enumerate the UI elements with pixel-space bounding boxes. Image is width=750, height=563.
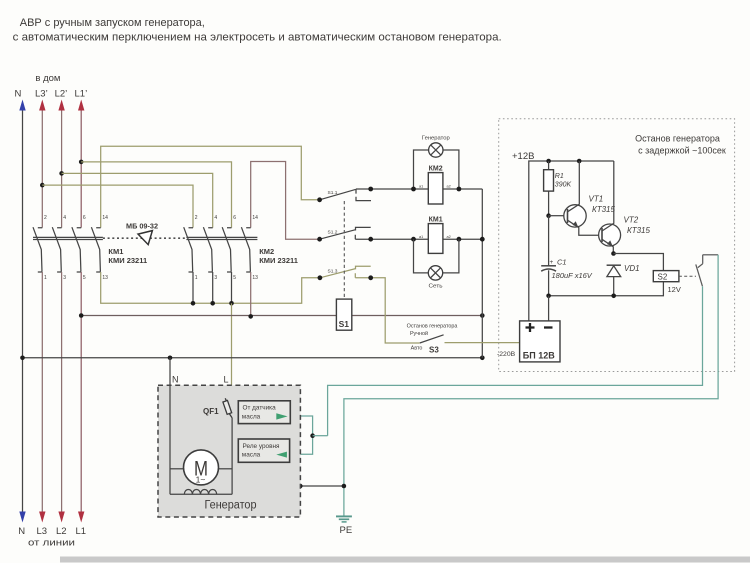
svg-text:а2: а2 <box>447 185 451 189</box>
node S1.2 out <box>368 237 373 242</box>
wire generator N drop <box>169 358 171 495</box>
contactor KM1 pole 3 <box>72 227 81 272</box>
svg-text:КТ315: КТ315 <box>592 205 616 214</box>
node N bus right end <box>480 356 485 361</box>
mechanical interlock dotted link <box>103 237 186 239</box>
svg-text:PE: PE <box>340 525 353 536</box>
switch S1.1 <box>320 189 371 200</box>
coil KM2 box <box>428 173 443 204</box>
contactor KM2 pole 1 <box>184 227 193 272</box>
svg-text:N: N <box>18 526 25 537</box>
svg-text:S1.2: S1.2 <box>328 230 338 236</box>
svg-text:S1: S1 <box>339 319 350 329</box>
svg-text:13: 13 <box>102 275 108 281</box>
node KM2-3 on L bus <box>210 301 215 306</box>
dashed link S2 <box>679 275 696 277</box>
svg-text:КМ1: КМ1 <box>429 216 443 223</box>
wire motor left stub <box>170 468 184 470</box>
wire sensor junction to riser <box>313 435 328 437</box>
svg-text:КМИ 23211: КМИ 23211 <box>108 256 147 265</box>
contactor KM2 pole 3 <box>222 227 231 272</box>
svg-text:N: N <box>172 375 179 385</box>
svg-text:L2: L2 <box>56 526 67 537</box>
svg-text:Генератор: Генератор <box>422 136 450 142</box>
svg-text:13: 13 <box>252 275 258 281</box>
contactor KM2 pole 4 aux <box>241 227 250 272</box>
svg-text:а1: а1 <box>419 235 423 239</box>
svg-text:L3: L3 <box>37 526 48 537</box>
lamp Set (mains) <box>428 266 442 280</box>
arrow L1 down <box>78 512 84 523</box>
svg-text:QF1: QF1 <box>203 407 219 416</box>
svg-text:180uF х16V: 180uF х16V <box>552 271 593 280</box>
lamp Generator <box>429 143 443 157</box>
wire L1' control bus y=315.5 <box>81 315 482 317</box>
arrow L2 down <box>58 512 64 523</box>
svg-text:4: 4 <box>63 215 66 221</box>
lamp Generator loop <box>414 150 459 189</box>
svg-text:14: 14 <box>102 215 108 221</box>
label plus BP <box>526 323 535 332</box>
arrow L3' up <box>39 100 45 111</box>
wire motor right stub <box>219 468 233 470</box>
arrow N down <box>19 512 25 523</box>
svg-text:L1: L1 <box>76 526 87 537</box>
svg-text:C1: C1 <box>557 258 567 267</box>
svg-text:+12В: +12В <box>512 151 534 162</box>
mechanical link S1 dashed <box>343 201 345 299</box>
node rail VT1 collector <box>577 159 582 164</box>
node S1.3 pivot <box>318 275 323 280</box>
node L3' feed <box>40 183 45 188</box>
contact S2 corner to teal riser <box>703 254 718 256</box>
svg-text:с автоматическим перключением: с автоматическим перключением на электро… <box>13 32 502 44</box>
arrow L3 down <box>39 512 45 523</box>
wire KM1 aux top 14 <box>101 146 318 227</box>
svg-text:а2: а2 <box>447 235 451 239</box>
lamp Set loop <box>414 239 459 273</box>
ground PE symbol <box>336 516 352 522</box>
node KM1 coil right <box>457 237 462 242</box>
svg-text:КМИ 23211: КМИ 23211 <box>259 256 298 265</box>
svg-text:5: 5 <box>83 275 86 281</box>
svg-text:БП 12В: БП 12В <box>523 351 555 361</box>
wire VT1 base <box>549 215 565 217</box>
wire KM1-13 to generator L bus <box>101 272 319 303</box>
svg-text:2: 2 <box>195 215 198 221</box>
svg-text:с задержкой ~100сек: с задержкой ~100сек <box>638 146 726 156</box>
wire emitter node to S2 coil <box>614 254 664 271</box>
svg-text:Сеть: Сеть <box>429 284 443 290</box>
wire KM1 coil row <box>355 238 482 240</box>
node S1.3 out <box>368 275 373 280</box>
svg-text:Останов генератора: Останов генератора <box>407 324 458 330</box>
svg-text:Реле уровня: Реле уровня <box>243 443 281 450</box>
node ground C1 <box>546 294 551 299</box>
node L1' control tap <box>79 313 84 318</box>
node KM2-13 on control bus <box>248 314 253 319</box>
wire L1' vertical top <box>80 111 82 228</box>
wire sensor 1 <box>288 416 312 454</box>
svg-text:S1.1: S1.1 <box>328 190 338 196</box>
coil KM1 box <box>428 224 443 254</box>
wire teal S2 bottom to sensors <box>328 286 703 436</box>
svg-text:L2’: L2’ <box>55 89 68 100</box>
svg-text:-220В: -220В <box>497 351 516 358</box>
bottom gray band <box>60 557 750 563</box>
node N bus left <box>20 356 25 361</box>
svg-text:КТ315: КТ315 <box>627 226 651 235</box>
node ground VD1 <box>611 294 616 299</box>
svg-text:S3: S3 <box>429 346 439 355</box>
node right vertical KM1 row <box>480 237 485 242</box>
node KM2 coil right <box>457 187 462 192</box>
svg-text:2: 2 <box>44 215 47 221</box>
wire KM2-5 bottom stub <box>231 272 233 303</box>
node KM1 coil left <box>411 237 416 242</box>
generator box <box>158 385 300 517</box>
node KM2-1 on L bus <box>191 301 196 306</box>
svg-text:S2: S2 <box>658 273 668 282</box>
arrow sensor 1 <box>276 413 287 419</box>
svg-text:N: N <box>15 89 22 100</box>
node rail R1 <box>546 159 551 164</box>
arrow sensor 2 <box>276 452 287 458</box>
wire teal S2 top to PE line <box>344 255 718 516</box>
svg-text:L: L <box>224 375 229 385</box>
diode VD1 <box>607 265 621 296</box>
node L1' feed <box>79 160 84 165</box>
svg-text:3: 3 <box>214 275 217 281</box>
wire S3 to power supply <box>445 342 520 344</box>
svg-text:+: + <box>550 259 554 266</box>
label minus BP <box>544 326 553 328</box>
svg-text:Останов генератора: Останов генератора <box>635 134 720 144</box>
contact S2 top terminal <box>698 255 703 268</box>
svg-text:14: 14 <box>252 215 258 221</box>
svg-text:1: 1 <box>195 275 198 281</box>
switch S1.2 <box>320 227 371 239</box>
mechanical interlock triangle MB 09-32 <box>138 231 152 245</box>
arrow N up <box>19 100 25 111</box>
svg-text:КМ1: КМ1 <box>108 247 123 256</box>
arrow L2' up <box>58 100 64 111</box>
wire generator bottom <box>170 493 232 495</box>
svg-text:S1.3: S1.3 <box>328 268 338 274</box>
node sensor junction <box>310 433 315 438</box>
node generator frame <box>298 484 303 489</box>
node L2' feed <box>59 171 64 176</box>
dashed box generator stop timer <box>499 119 735 372</box>
wire right vertical coil return <box>481 189 483 358</box>
wire L3' to KM2-2 <box>42 185 193 228</box>
wire N vertical <box>22 111 24 514</box>
svg-text:390K: 390K <box>555 182 572 189</box>
KM2 armature bar <box>186 237 257 239</box>
contact S2 lever <box>696 264 703 286</box>
svg-text:VT2: VT2 <box>624 216 639 225</box>
node control bus to right vertical <box>480 313 485 318</box>
node VT2 emitter <box>611 251 616 256</box>
sensor box 2 (rele urovnya masla) <box>238 439 289 462</box>
wire generator frame to PE <box>300 485 344 487</box>
KM2 terminal numbers top <box>195 215 258 221</box>
svg-text:6: 6 <box>233 215 236 221</box>
svg-text:L3’: L3’ <box>35 89 48 100</box>
node S1.2 pivot <box>317 237 322 242</box>
svg-text:12V: 12V <box>668 285 681 294</box>
svg-text:4: 4 <box>214 215 217 221</box>
wire L3 below KM1 <box>41 272 43 513</box>
node KM2-5 on L bus <box>229 301 234 306</box>
wire L2 below KM1 <box>61 272 63 513</box>
wire L1 below KM1 <box>80 272 82 513</box>
svg-text:АВР с ручным запуском генерато: АВР с ручным запуском генератора, <box>20 17 205 29</box>
wire S1.3 out to S3 <box>355 278 420 343</box>
wire L2' vertical top <box>61 111 63 228</box>
power supply BP box <box>520 321 560 362</box>
wire QF1 to motor <box>231 418 233 495</box>
svg-text:3: 3 <box>63 275 66 281</box>
svg-text:R1: R1 <box>555 173 564 180</box>
svg-text:МБ 09-32: МБ 09-32 <box>126 222 158 231</box>
svg-text:КМ2: КМ2 <box>429 166 443 173</box>
capacitor C1 <box>541 216 556 296</box>
breaker QF1 <box>223 398 232 418</box>
wire KM2-13 bottom stub <box>250 272 252 316</box>
KM1 armature bar <box>33 237 103 239</box>
wire KM2 coil row <box>356 188 482 190</box>
svg-text:1~: 1~ <box>196 475 206 485</box>
transistor VT1 <box>564 161 599 235</box>
contactor KM1 pole 2 <box>52 227 61 272</box>
KM2 terminal numbers bottom <box>195 275 258 281</box>
wire +12V rail <box>529 161 614 321</box>
wire N bus to generator <box>23 357 483 359</box>
wire KM2 aux top 14 to S1.2 <box>251 162 318 240</box>
svg-text:От датчика: От датчика <box>243 405 277 412</box>
svg-text:Авто: Авто <box>411 346 423 352</box>
svg-text:6: 6 <box>83 215 86 221</box>
wire ground line (timer) <box>549 282 664 296</box>
node VT1 base <box>546 213 551 218</box>
svg-text:Ручной: Ручной <box>410 330 428 337</box>
KM1 terminal numbers top <box>44 215 108 221</box>
svg-text:масла: масла <box>242 452 261 459</box>
switch block S1 box <box>336 299 351 330</box>
node S1.1 pivot <box>317 197 322 202</box>
relay S2 box <box>653 271 679 282</box>
node KM2 coil left <box>411 187 416 192</box>
wire L1' to KM2-6 <box>81 162 231 228</box>
svg-text:VT1: VT1 <box>589 195 604 204</box>
svg-text:5: 5 <box>233 275 236 281</box>
contactor KM1 pole 4 aux <box>91 227 100 272</box>
wire KM2-1 bottom stub <box>192 272 194 303</box>
wire L2' to KM2-4 <box>62 173 213 227</box>
node PE tap <box>342 484 347 489</box>
transistor VT2 <box>599 161 621 254</box>
wire generator L drop <box>231 303 233 400</box>
node S1.1 out <box>368 187 373 192</box>
sensor box 1 (ot datchika masla) <box>238 401 290 424</box>
svg-text:1: 1 <box>44 275 47 281</box>
svg-text:а1: а1 <box>419 185 423 189</box>
KM1 terminal numbers bottom <box>44 275 108 281</box>
inductor generator winding <box>184 489 216 494</box>
svg-text:VD1: VD1 <box>624 264 640 273</box>
wire KM2-3 bottom stub <box>212 272 214 303</box>
wire L3' vertical top <box>41 111 43 228</box>
svg-text:L1’: L1’ <box>75 89 88 100</box>
contactor KM1 pole 1 <box>33 227 42 272</box>
svg-text:в дом: в дом <box>35 73 60 84</box>
resistor R1 <box>544 161 554 216</box>
arrow L1' up <box>78 100 84 111</box>
svg-text:Генератор: Генератор <box>205 500 257 512</box>
svg-text:КМ2: КМ2 <box>259 247 274 256</box>
switch S1.3 <box>320 266 371 278</box>
svg-text:от линии: от линии <box>28 538 75 549</box>
svg-text:масла: масла <box>242 413 261 420</box>
contactor KM2 pole 2 <box>203 227 212 272</box>
node N bus generator tap <box>168 356 173 361</box>
switch S3 lever <box>420 335 444 343</box>
motor M1 <box>184 450 219 485</box>
wire PSU minus riser <box>548 296 550 321</box>
